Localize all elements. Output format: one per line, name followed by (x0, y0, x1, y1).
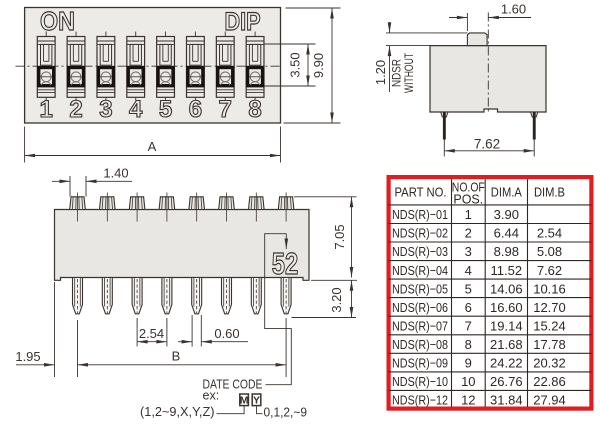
table row NDS(R)−04 (392, 263, 562, 278)
svg-text:4: 4 (465, 263, 472, 278)
svg-text:3: 3 (465, 244, 472, 259)
svg-text:9: 9 (465, 356, 472, 371)
dimension 0.60 arrows (178, 341, 192, 343)
svg-text:5: 5 (159, 96, 172, 123)
front view pin 8 (281, 278, 291, 314)
part number table red border (389, 177, 592, 409)
table row NDS(R)−10 (392, 374, 566, 389)
dimension 9.90 extension lines (286, 7, 341, 9)
front view pin 2 (102, 278, 112, 314)
svg-text:7: 7 (219, 96, 232, 123)
dimension 3.50 line (307, 44, 309, 86)
svg-text:24.22: 24.22 (490, 356, 523, 371)
svg-text:6: 6 (189, 96, 202, 123)
side view body (430, 46, 546, 112)
dimension 1.95 arrow (16, 364, 55, 366)
svg-text:NDSR: NDSR (392, 59, 404, 87)
svg-text:2.54: 2.54 (537, 226, 562, 241)
leader from M box to month codes (217, 406, 245, 414)
svg-text:NDS(R)−10: NDS(R)−10 (392, 374, 448, 389)
svg-text:WITHOUT: WITHOUT (404, 53, 416, 93)
front view pin 3 (132, 278, 142, 314)
svg-text:POS.: POS. (453, 193, 483, 207)
svg-text:12.70: 12.70 (533, 300, 566, 315)
svg-text:6.44: 6.44 (494, 226, 519, 241)
table column lines (451, 179, 453, 407)
front view actuator nub 8 (278, 193, 294, 222)
table row NDS(R)−06 (392, 300, 566, 315)
table row NDS(R)−12 (392, 393, 566, 408)
svg-text:7.05: 7.05 (332, 224, 347, 249)
table row NDS(R)−08 (392, 337, 566, 352)
svg-text:M: M (240, 394, 249, 406)
svg-text:0.60: 0.60 (214, 326, 239, 341)
front view actuator nub 5 (189, 193, 205, 222)
svg-text:3.20: 3.20 (329, 287, 344, 312)
dimension 2.54 line (137, 341, 167, 343)
dimension 1.95 extension line (54, 282, 56, 377)
front view actuator nub 4 (159, 193, 175, 222)
svg-text:16.60: 16.60 (490, 300, 523, 315)
dimension 1.20 extension lines (386, 32, 467, 34)
svg-text:3: 3 (99, 96, 112, 123)
svg-text:NDS(R)−06: NDS(R)−06 (392, 300, 448, 315)
table row NDS(R)−02 (392, 226, 562, 241)
svg-text:8.98: 8.98 (494, 244, 519, 259)
svg-text:22.86: 22.86 (533, 374, 566, 389)
svg-text:NDS(R)−08: NDS(R)−08 (392, 337, 448, 352)
svg-text:4: 4 (129, 96, 143, 123)
svg-text:26.76: 26.76 (490, 374, 523, 389)
date code 52 leader with arrow (285, 234, 287, 249)
svg-text:1: 1 (40, 96, 53, 123)
svg-text:27.94: 27.94 (533, 393, 566, 408)
table row lines (389, 204, 592, 206)
dimension 1.60 extension line (466, 13, 468, 31)
svg-text:19.14: 19.14 (490, 318, 523, 333)
svg-text:1.40: 1.40 (103, 166, 128, 181)
svg-text:2: 2 (465, 226, 472, 241)
svg-text:20.32: 20.32 (533, 356, 566, 371)
svg-text:12: 12 (461, 393, 475, 408)
svg-text:15.24: 15.24 (533, 318, 566, 333)
dimension 1.60 line with arrows (449, 17, 467, 19)
svg-text:ON: ON (40, 6, 75, 36)
svg-text:21.68: 21.68 (490, 337, 523, 352)
horizontal centerline of switches (16, 65, 281, 67)
svg-text:NDS(R)−05: NDS(R)−05 (392, 281, 448, 296)
svg-text:(1,2~9,X,Y,Z): (1,2~9,X,Y,Z) (140, 405, 215, 419)
switch 2 slider assembly (67, 32, 85, 101)
svg-text:8: 8 (248, 96, 261, 123)
svg-text:NDS(R)−02: NDS(R)−02 (392, 226, 448, 241)
dimension 3.20 line (351, 280, 353, 317)
front view actuator nub 3 (129, 193, 145, 222)
front view pin 6 (222, 278, 232, 314)
svg-text:1.20: 1.20 (373, 60, 388, 85)
table row NDS(R)−03 (392, 244, 562, 259)
side view left pin shoulder (441, 112, 448, 117)
switch 5 slider assembly (157, 32, 175, 101)
dimension 3.20 extension lines (311, 279, 357, 281)
svg-text:31.84: 31.84 (490, 393, 523, 408)
dimension 2.54 extension lines (136, 318, 138, 347)
dimension 1.20 arrows (389, 22, 391, 33)
dimension 7.62 line (444, 150, 534, 152)
svg-text:NDS(R)−01: NDS(R)−01 (392, 207, 448, 222)
date code year box Y (252, 394, 261, 406)
svg-text:B: B (172, 349, 181, 364)
switch 4 slider assembly (127, 32, 145, 101)
switch 6 slider assembly (187, 32, 205, 101)
side view right pin shoulder (531, 112, 538, 117)
dimension 1.40 arrows (52, 180, 70, 182)
top view body outline (25, 8, 281, 124)
dimension A extension lines (24, 127, 26, 163)
table row NDS(R)−05 (392, 281, 566, 296)
svg-text:1: 1 (465, 207, 472, 222)
dimension B line (78, 364, 287, 366)
dimension B extension lines (77, 320, 79, 377)
switch 8 slider assembly (246, 32, 264, 101)
svg-text:NDS(R)−04: NDS(R)−04 (392, 263, 448, 278)
dimension 7.62 extension lines (443, 140, 445, 157)
side view left pin (443, 112, 446, 140)
svg-text:7.62: 7.62 (537, 263, 562, 278)
svg-text:Y: Y (253, 394, 260, 406)
svg-text:5: 5 (465, 281, 472, 296)
svg-text:PART NO.: PART NO. (395, 186, 447, 200)
table row NDS(R)−01 (392, 207, 519, 222)
front view pin 1 (73, 278, 83, 314)
svg-text:1.60: 1.60 (501, 2, 526, 17)
front view actuator nub 6 (219, 193, 235, 222)
svg-text:NDS(R)−07: NDS(R)−07 (392, 318, 448, 333)
svg-text:2.54: 2.54 (139, 326, 164, 341)
svg-text:ex:: ex: (203, 389, 220, 403)
dimension 1.40 extension lines (69, 176, 71, 197)
front view pin 4 (162, 278, 172, 314)
svg-text:52: 52 (272, 246, 299, 281)
dimension 7.05 line (351, 197, 353, 278)
svg-text:NDS(R)−09: NDS(R)−09 (392, 356, 448, 371)
svg-text:11.52: 11.52 (491, 263, 523, 278)
dimension 7.05 extension line (294, 196, 357, 198)
svg-text:NDS(R)−12: NDS(R)−12 (392, 393, 448, 408)
svg-text:3.90: 3.90 (494, 207, 519, 222)
svg-text:14.06: 14.06 (490, 281, 523, 296)
front view actuator nub 7 (249, 193, 265, 222)
table row NDS(R)−07 (392, 318, 566, 333)
svg-text:3.50: 3.50 (288, 52, 303, 77)
svg-text:10: 10 (461, 374, 475, 389)
front view pin 5 (192, 278, 202, 314)
svg-text:17.78: 17.78 (533, 337, 566, 352)
switch 3 slider assembly (97, 32, 115, 101)
dimension 0.60 extension lines (191, 315, 193, 347)
switch 1 slider assembly (37, 32, 55, 101)
date code month box M (240, 394, 249, 406)
front view pin 7 (251, 278, 261, 314)
switch 7 slider assembly (216, 32, 234, 101)
svg-text:2: 2 (69, 96, 82, 123)
svg-text:DIM.B: DIM.B (534, 186, 565, 200)
svg-text:6: 6 (465, 300, 472, 315)
dimension 3.50 extension lines (265, 43, 316, 45)
dimension 9.90 line (331, 8, 333, 123)
svg-text:A: A (148, 139, 157, 154)
svg-text:7: 7 (465, 318, 472, 333)
front view actuator nub 1 (70, 193, 86, 222)
svg-text:9.90: 9.90 (311, 53, 326, 78)
side view right pin (533, 112, 536, 140)
svg-text:8: 8 (465, 337, 472, 352)
svg-text:DIM.A: DIM.A (491, 186, 523, 200)
svg-text:5.08: 5.08 (537, 244, 562, 259)
svg-text:10.16: 10.16 (533, 281, 566, 296)
svg-text:1.95: 1.95 (15, 349, 40, 364)
svg-text:NDS(R)−03: NDS(R)−03 (392, 244, 448, 259)
front view body (55, 210, 310, 281)
side view vertical centerline (487, 13, 489, 113)
dimension A line (25, 155, 281, 157)
svg-text:0,1,2,~9: 0,1,2,~9 (264, 406, 308, 420)
table row NDS(R)−09 (392, 356, 566, 371)
front view actuator nub 2 (100, 193, 116, 222)
svg-text:7.62: 7.62 (474, 136, 500, 151)
leader from Y box to year codes (257, 406, 263, 414)
side view actuator bump (467, 33, 487, 46)
